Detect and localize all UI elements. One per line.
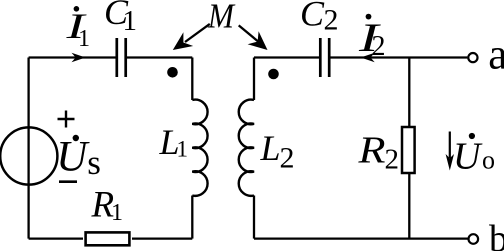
U_o arrow shaft <box>449 132 451 159</box>
wire right-loop bottom <box>254 237 468 239</box>
wire left-loop bottom left segment <box>29 237 83 239</box>
svg-text:o: o <box>482 146 495 175</box>
polarity dot L1 <box>167 67 178 78</box>
wire left vertical <box>27 58 29 239</box>
resistor R1 <box>86 232 130 245</box>
wire L1 lower lead <box>191 196 193 239</box>
terminal a <box>468 53 477 62</box>
svg-text:2: 2 <box>385 144 400 176</box>
mutual arrow right head <box>248 31 268 50</box>
svg-text:1: 1 <box>111 200 123 226</box>
label Us dot <box>73 135 79 141</box>
wire R2 upper lead <box>408 58 410 127</box>
wire left-loop bottom right segment <box>132 237 192 239</box>
source U_s circle <box>0 127 57 184</box>
current arrow I1 <box>72 53 86 63</box>
U_o arrow head <box>446 154 454 171</box>
svg-text:U: U <box>453 136 483 178</box>
wire left-loop top right segment <box>127 56 192 58</box>
inductor L1 <box>192 100 207 196</box>
wire R2 lower lead <box>408 174 410 239</box>
mutual arrow left shaft <box>185 24 210 42</box>
wire L2 upper lead <box>253 58 255 101</box>
mutual arrow right shaft <box>239 25 259 41</box>
wire left-loop top left segment <box>29 56 116 58</box>
polarity dot L2 <box>268 69 279 80</box>
svg-text:U: U <box>56 134 90 181</box>
svg-text:2: 2 <box>324 3 339 36</box>
svg-text:R: R <box>357 130 385 172</box>
label I2 dot <box>366 14 372 20</box>
svg-text:1: 1 <box>123 5 138 37</box>
wire L1 upper lead <box>191 58 193 101</box>
svg-text:2: 2 <box>372 31 386 62</box>
svg-text:C: C <box>300 0 325 34</box>
capacitor C1 <box>117 38 126 77</box>
wire right-loop top left segment <box>254 56 319 58</box>
mutual arrow left head <box>173 32 193 50</box>
svg-text:L: L <box>260 128 281 168</box>
svg-text:s: s <box>87 143 101 182</box>
wire L2 lower lead <box>253 196 255 239</box>
capacitor C2 <box>320 38 329 77</box>
svg-text:1: 1 <box>177 137 189 162</box>
svg-text:b: b <box>489 218 504 251</box>
wire right-loop top right segment <box>330 56 467 58</box>
svg-text:M: M <box>207 0 236 36</box>
label Uo dot <box>469 133 475 139</box>
resistor R2 <box>402 127 415 173</box>
svg-text:2: 2 <box>280 142 295 175</box>
label I1 dot <box>74 6 80 12</box>
source minus sign <box>59 180 77 183</box>
terminal b <box>469 234 479 244</box>
inductor L2 <box>239 100 254 196</box>
source plus sign <box>58 111 75 128</box>
current arrow I2 <box>361 53 375 63</box>
svg-text:1: 1 <box>78 26 90 52</box>
svg-text:a: a <box>488 32 504 79</box>
